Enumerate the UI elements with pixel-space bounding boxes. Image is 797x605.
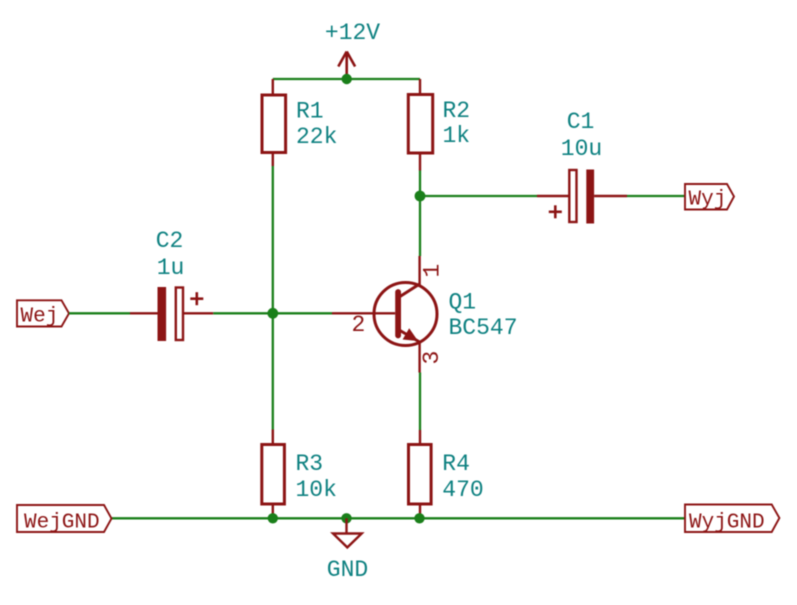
svg-text:1: 1 xyxy=(420,264,446,278)
collector pin 1 xyxy=(418,256,420,285)
junction R4 bottom xyxy=(414,513,424,523)
wire R2 bottom to output node xyxy=(419,171,421,197)
junction node A (base/divider) xyxy=(267,308,278,319)
wire R1 bottom to R3 top (through input node) xyxy=(272,166,274,430)
wire C1 to Wyj port xyxy=(627,195,685,197)
svg-text:Q1: Q1 xyxy=(449,290,477,316)
emitter diagonal xyxy=(400,331,420,343)
port Wej xyxy=(17,300,69,326)
wire bottom rail xyxy=(112,517,686,519)
svg-text:R1: R1 xyxy=(296,99,324,125)
svg-text:2: 2 xyxy=(352,312,366,338)
port Wyj xyxy=(685,184,734,210)
transistor Q1 xyxy=(332,256,437,373)
wire top rail xyxy=(273,78,420,80)
capacitor C2 xyxy=(130,287,213,341)
svg-text:C2: C2 xyxy=(156,228,184,254)
power symbol +12V xyxy=(338,52,355,80)
svg-text:BC547: BC547 xyxy=(449,315,518,341)
svg-text:10u: 10u xyxy=(561,136,602,162)
port WejGND xyxy=(17,505,112,532)
resistor R4 xyxy=(409,430,432,518)
wire Wej to C2 xyxy=(69,312,130,314)
svg-text:R2: R2 xyxy=(443,98,471,124)
svg-text:Wyj: Wyj xyxy=(689,189,727,212)
emitter pin 3 xyxy=(418,342,420,373)
svg-text:1k: 1k xyxy=(443,123,471,149)
wire output node to C1 xyxy=(420,195,537,197)
svg-text:R3: R3 xyxy=(296,451,324,477)
port WyjGND xyxy=(685,505,779,533)
resistor R2 xyxy=(408,79,432,171)
circle body xyxy=(374,283,437,346)
junction output node xyxy=(415,191,426,202)
svg-text:1u: 1u xyxy=(157,255,185,281)
ground symbol xyxy=(333,518,362,547)
svg-text:470: 470 xyxy=(442,477,483,503)
resistor R1 xyxy=(262,79,286,166)
wire output node down to collector pin xyxy=(419,196,421,256)
svg-text:WyjGND: WyjGND xyxy=(689,512,765,535)
base pin 2 xyxy=(332,312,395,314)
resistor R3 xyxy=(262,430,285,519)
svg-text:10k: 10k xyxy=(296,477,337,503)
svg-text:GND: GND xyxy=(327,557,368,583)
svg-text:C1: C1 xyxy=(567,109,595,135)
svg-text:22k: 22k xyxy=(296,124,337,150)
svg-text:Wej: Wej xyxy=(21,306,59,329)
collector diagonal xyxy=(400,284,420,297)
svg-text:3: 3 xyxy=(419,351,445,365)
wire C2 to base (through node A) xyxy=(213,312,332,314)
svg-text:WejGND: WejGND xyxy=(24,512,100,535)
svg-text:+12V: +12V xyxy=(325,20,380,46)
junction GND xyxy=(341,513,351,523)
junction at +12V on top rail xyxy=(342,74,352,84)
svg-text:R4: R4 xyxy=(442,451,470,477)
base bar xyxy=(395,292,401,336)
wire emitter to R4 xyxy=(419,373,421,431)
capacitor C1 xyxy=(537,170,627,224)
emitter arrowhead xyxy=(403,328,418,341)
junction R3 bottom xyxy=(268,513,278,523)
